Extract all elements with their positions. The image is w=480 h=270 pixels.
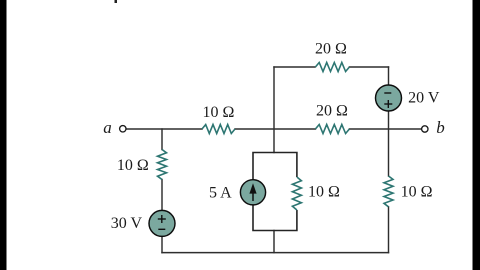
svg-text:10 Ω: 10 Ω — [203, 104, 235, 121]
svg-text:20 V: 20 V — [408, 90, 440, 107]
svg-text:10 Ω: 10 Ω — [308, 183, 340, 200]
svg-text:20 Ω: 20 Ω — [315, 41, 347, 58]
svg-text:10 Ω: 10 Ω — [117, 157, 149, 174]
svg-text:a: a — [103, 118, 112, 137]
svg-text:b: b — [436, 118, 445, 137]
svg-text:20 Ω: 20 Ω — [316, 103, 348, 120]
svg-text:10 Ω: 10 Ω — [401, 183, 433, 200]
svg-text:30 V: 30 V — [111, 215, 143, 232]
svg-text:5 A: 5 A — [209, 184, 232, 201]
